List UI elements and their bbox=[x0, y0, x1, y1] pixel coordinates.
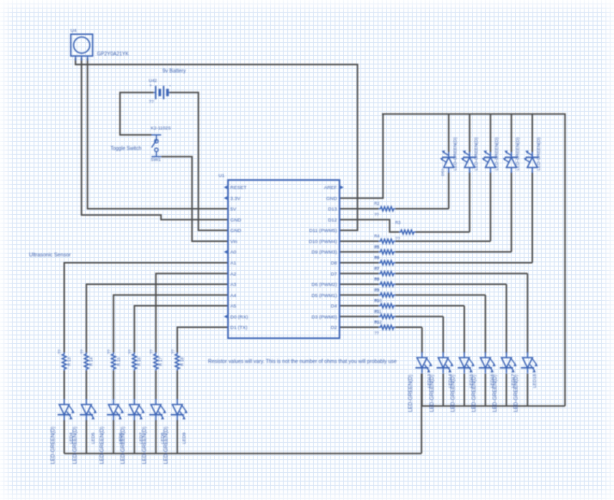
svg-text:R5: R5 bbox=[374, 244, 380, 249]
svg-text:D11 (PWM5): D11 (PWM5) bbox=[309, 228, 337, 234]
svg-text:R8: R8 bbox=[374, 277, 380, 282]
svg-text:GP2Y0A21YK: GP2Y0A21YK bbox=[97, 51, 129, 57]
svg-text:??: ?? bbox=[170, 349, 175, 354]
svg-text:D13: D13 bbox=[328, 207, 337, 213]
svg-text:A2: A2 bbox=[230, 271, 236, 277]
svg-text:GND: GND bbox=[230, 228, 241, 234]
svg-text:A5: A5 bbox=[230, 304, 236, 310]
svg-text:LED-GREEN(D): LED-GREEN(D) bbox=[121, 426, 127, 464]
svg-text:LED-GREEN(D): LED-GREEN(D) bbox=[493, 374, 499, 412]
svg-text:??: ?? bbox=[395, 236, 400, 241]
svg-text:R12: R12 bbox=[374, 320, 382, 325]
svg-text:R 14: R 14 bbox=[89, 357, 94, 366]
svg-text:A4: A4 bbox=[230, 293, 236, 299]
svg-text:D3 (PWM0): D3 (PWM0) bbox=[311, 314, 337, 320]
svg-text:D2: D2 bbox=[331, 325, 338, 331]
svg-text:Resistor values will vary. Thi: Resistor values will vary. This is not t… bbox=[208, 359, 397, 365]
svg-text:D5 (PWM1): D5 (PWM1) bbox=[311, 293, 337, 299]
svg-text:R4: R4 bbox=[374, 234, 380, 239]
svg-text:LED-GREEN(D): LED-GREEN(D) bbox=[100, 426, 106, 464]
svg-text:LED-GREEN(D): LED-GREEN(D) bbox=[408, 374, 414, 412]
svg-text:LED-GREEN(D): LED-GREEN(D) bbox=[494, 137, 499, 171]
svg-text:R7: R7 bbox=[374, 266, 380, 271]
svg-text:U4: U4 bbox=[71, 28, 77, 33]
svg-text:GND: GND bbox=[230, 217, 241, 223]
svg-text:LED-GREEN(D): LED-GREEN(D) bbox=[515, 137, 520, 171]
svg-text:D52: D52 bbox=[440, 168, 445, 176]
svg-text:+: + bbox=[149, 83, 152, 88]
svg-text:GND: GND bbox=[326, 196, 337, 202]
svg-text:??: ?? bbox=[107, 349, 112, 354]
svg-text:??: ?? bbox=[57, 349, 62, 354]
svg-text:LED5: LED5 bbox=[91, 432, 96, 444]
svg-text:Toggle Switch: Toggle Switch bbox=[111, 146, 142, 152]
svg-text:AREF: AREF bbox=[324, 185, 337, 191]
svg-text:D10 (PWM4): D10 (PWM4) bbox=[309, 239, 338, 245]
svg-text:LED-GREEN(D): LED-GREEN(D) bbox=[164, 426, 170, 464]
svg-text:LED-GREEN(D): LED-GREEN(D) bbox=[536, 137, 541, 171]
svg-text:??: ?? bbox=[374, 331, 379, 336]
svg-text:??: ?? bbox=[127, 349, 132, 354]
svg-text:??: ?? bbox=[79, 349, 84, 354]
svg-text:R10: R10 bbox=[374, 298, 382, 303]
svg-text:LED-GREEN(D): LED-GREEN(D) bbox=[50, 426, 56, 464]
svg-text:LED-GREEN(D): LED-GREEN(D) bbox=[473, 137, 478, 171]
svg-text:R9: R9 bbox=[374, 287, 380, 292]
svg-text:R 13: R 13 bbox=[67, 357, 72, 366]
svg-text:A3: A3 bbox=[230, 282, 236, 288]
svg-text:D1 (TX): D1 (TX) bbox=[230, 325, 247, 331]
svg-text:K2-1102S: K2-1102S bbox=[151, 125, 171, 130]
svg-text:D0 (RX): D0 (RX) bbox=[230, 314, 248, 320]
svg-text:A0: A0 bbox=[230, 250, 236, 256]
svg-text:5V: 5V bbox=[230, 207, 237, 213]
svg-text:Ultrasonic Sensor: Ultrasonic Sensor bbox=[29, 253, 71, 259]
svg-text:D6 (PWM2): D6 (PWM2) bbox=[311, 282, 337, 288]
svg-text:R 17: R 17 bbox=[158, 357, 163, 366]
svg-text:D9 (PWM3): D9 (PWM3) bbox=[311, 250, 337, 256]
svg-text:Vin: Vin bbox=[230, 239, 237, 245]
svg-text:U1: U1 bbox=[219, 173, 225, 178]
svg-text:R2: R2 bbox=[374, 201, 380, 206]
svg-text:??: ?? bbox=[149, 349, 154, 354]
svg-text:LED-GREEN(D): LED-GREEN(D) bbox=[451, 374, 457, 412]
svg-text:SW1: SW1 bbox=[151, 157, 161, 162]
svg-text:9v Battery: 9v Battery bbox=[163, 69, 187, 75]
svg-text:R 15: R 15 bbox=[116, 357, 121, 366]
svg-text:D4: D4 bbox=[331, 304, 338, 310]
svg-text:R 16: R 16 bbox=[137, 357, 142, 366]
svg-text:A1: A1 bbox=[230, 261, 236, 267]
svg-text:LED-GREEN(D): LED-GREEN(D) bbox=[452, 137, 457, 171]
svg-text:LED-GREEN(D): LED-GREEN(D) bbox=[514, 374, 520, 412]
svg-text:D8: D8 bbox=[331, 261, 338, 267]
svg-text:R 18: R 18 bbox=[180, 357, 185, 366]
svg-text:LED18: LED18 bbox=[532, 374, 537, 388]
svg-text:R3: R3 bbox=[395, 220, 401, 225]
svg-text:LED-GREEN(D): LED-GREEN(D) bbox=[73, 426, 79, 464]
svg-text:R6: R6 bbox=[374, 255, 380, 260]
svg-text:3.3V: 3.3V bbox=[230, 196, 241, 202]
svg-text:LED-GREEN(D): LED-GREEN(D) bbox=[429, 374, 435, 412]
svg-text:RESET: RESET bbox=[230, 185, 246, 191]
svg-text:??: ?? bbox=[374, 212, 379, 217]
svg-text:LED-GREEN(D): LED-GREEN(D) bbox=[142, 426, 148, 464]
svg-text:LED9: LED9 bbox=[182, 432, 187, 444]
svg-text:LED-GREEN(D): LED-GREEN(D) bbox=[472, 374, 478, 412]
svg-text:R11: R11 bbox=[374, 309, 382, 314]
svg-text:??: ?? bbox=[149, 99, 154, 104]
svg-text:D12: D12 bbox=[328, 217, 337, 223]
svg-text:D7: D7 bbox=[331, 271, 338, 277]
